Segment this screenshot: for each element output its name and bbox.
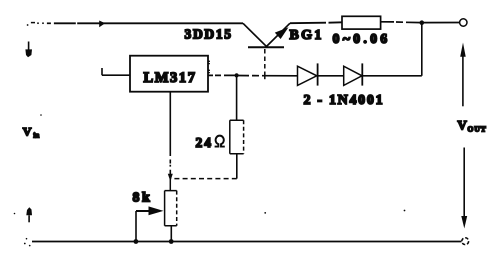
terminal output negative [462,238,469,245]
svg-text:8k: 8k [133,191,153,206]
svg-text:V: V [458,118,468,132]
node pot-ground junction dot [169,239,174,244]
svg-text:24: 24 [196,135,214,150]
transistor Q1 emitter arrowhead [275,27,289,39]
noise specks [14,114,406,246]
arrow current direction on top rail [99,21,105,28]
wire top rail [54,22,243,24]
arrow Vin bottom [26,207,32,222]
wire adj pin drop [169,92,171,174]
diode D1 [298,63,318,85]
svg-text:2 - 1N4001: 2 - 1N4001 [304,93,385,108]
transistor Q1 collector line [243,23,266,46]
wire node A down to diode branch [421,23,423,76]
svg-text:3DD15: 3DD15 [185,27,233,42]
svg-text:LM317: LM317 [144,70,197,86]
transistor Q1 base bar [248,46,284,48]
IC U1 LM317 box [130,56,208,92]
wire emitter to resistor [290,21,342,24]
node B junction dot [235,73,239,77]
resistor R2 240 body [230,120,244,154]
wire output pin to node B [208,74,237,76]
arrow Vout top up [460,43,466,107]
wire input pin stub [102,68,130,75]
svg-text:V: V [23,124,32,138]
wire top rail dashes [27,22,51,26]
wire adj to pot top [169,179,171,191]
diode D2 [344,63,363,85]
node A junction dot [420,20,425,25]
label Vin [23,124,40,139]
svg-text:BG1: BG1 [290,28,324,43]
wire adj dashed horizontal [170,178,237,180]
wire bottom rail [32,241,462,243]
resistor R1 body [342,16,381,29]
arrowhead adj down [168,174,173,182]
wiper arrow of RP [136,210,152,212]
wire node B down to resistor R2 [236,75,238,120]
wire node B to diode D1 [237,75,298,77]
svg-text:0~0.06: 0~0.06 [333,32,391,47]
svg-text:in: in [34,133,40,140]
wire node A to output terminal [422,22,459,24]
terminal output positive [460,19,467,26]
wire base dashed drop [264,49,266,75]
wire pot bottom to rail [170,226,172,242]
wire D1 to D2 [318,75,344,77]
wire D2 up to node A [362,75,422,77]
wire R2 bottom [236,154,238,179]
node wiper-ground junction dot [134,239,139,244]
arrow Vin top [25,42,32,58]
svg-text:OUT: OUT [468,125,487,134]
label Vout [458,118,487,133]
transistor Q1 emitter line [266,23,290,46]
wire wiper down to bottom rail [135,211,137,242]
arrow Vout bottom down [461,148,467,229]
potentiometer RP body [165,191,177,226]
wire resistor to node A [381,21,422,24]
